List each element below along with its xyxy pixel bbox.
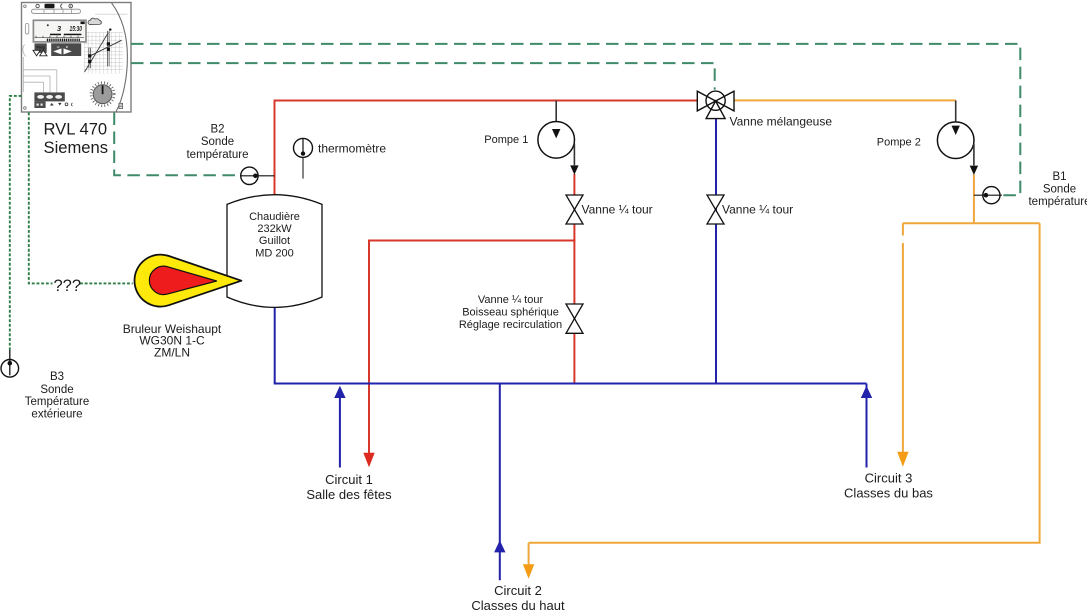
controller U1 RVL 470 Siemens [22, 3, 132, 113]
svg-text:Pompe 1: Pompe 1 [484, 134, 528, 146]
svg-text:232kW: 232kW [257, 223, 292, 235]
svg-text:Sonde: Sonde [40, 384, 73, 396]
rotary knob [91, 83, 114, 106]
wire green dotted to burner [29, 113, 133, 284]
svg-text:Siemens: Siemens [44, 138, 109, 157]
svg-text:Boisseau sphérique: Boisseau sphérique [462, 307, 559, 319]
svg-text:thermomètre: thermomètre [318, 141, 386, 155]
wire red supply header [274, 100, 699, 102]
thermometer [294, 138, 313, 178]
wire orange distribution header [903, 222, 1040, 224]
svg-text:Prog: Prog [37, 46, 45, 50]
svg-text:B1: B1 [1052, 171, 1066, 183]
wire orange circuit 3 supply [902, 223, 904, 452]
wire orange bottom run [529, 542, 1041, 544]
wire blue circuit 1 return [339, 398, 341, 468]
arrow blue circuit 2 [494, 540, 505, 552]
label burner Bruleur Weishaupt WG30N 1-C ZM/LN [123, 322, 222, 359]
arrow orange circuit 2 [523, 564, 534, 579]
wire blue boiler return drop [274, 307, 276, 384]
svg-text:Vanne ¼ tour: Vanne ¼ tour [478, 294, 544, 306]
wire green dashed to sensor B1 [131, 44, 1020, 195]
svg-text:Circuit 3: Circuit 3 [865, 471, 913, 486]
label B3 Sonde Température extérieure [25, 371, 90, 420]
wire green dashed to sensor B2 [114, 113, 240, 176]
arrow red circuit 1 [363, 453, 374, 467]
wire red circuit 1 supply [368, 240, 370, 454]
mixing valve V4 three-way [697, 91, 734, 119]
wire orange right riser [1039, 223, 1041, 543]
wire red recirculation horizontal [369, 240, 575, 242]
svg-text:Vanne ¼ tour: Vanne ¼ tour [582, 202, 653, 216]
label Circuit 1 Salle des fêtes [306, 472, 392, 502]
svg-text:Circuit 2: Circuit 2 [494, 583, 542, 598]
sensor B1 flow temperature [974, 187, 1002, 204]
svg-text:???: ??? [54, 277, 82, 295]
label Circuit 2 Classes du haut [471, 583, 565, 613]
valve V2 quarter-turn ball recirculation [566, 304, 583, 333]
Prog button panel [35, 43, 47, 52]
arrow blue circuit 1 [334, 386, 345, 398]
valve V1 quarter-turn (pump 1 branch) [566, 195, 583, 224]
svg-text:Température: Température [25, 396, 90, 408]
svg-text:Circuit 1: Circuit 1 [325, 472, 373, 487]
wire orange pump 2 drop [973, 175, 975, 224]
svg-text:Classes du bas: Classes du bas [844, 485, 933, 500]
svg-text:Réglage recirculation: Réglage recirculation [459, 319, 562, 331]
pump P1 connector and arrows [538, 101, 579, 175]
svg-text:Guillot: Guillot [259, 235, 290, 247]
cloud icon [88, 18, 101, 24]
svg-text:B2: B2 [210, 124, 224, 136]
wire orange circuit 2 supply [528, 543, 530, 565]
wire green dotted to sensor B3 [10, 96, 22, 350]
LCD display [33, 20, 86, 42]
svg-text:extérieure: extérieure [31, 409, 82, 421]
wire blue circuit 3 return [866, 384, 868, 468]
sensor B3 outdoor [1, 350, 19, 378]
label valve V2 three lines [459, 294, 562, 331]
setpoint grid chart [85, 33, 109, 72]
slider panel [34, 92, 64, 101]
svg-text:MD 200: MD 200 [255, 247, 294, 259]
wiring sketch lines [23, 57, 57, 92]
curved housing edge [112, 3, 128, 112]
valve V3 quarter-turn (mixing valve drop) [707, 195, 724, 224]
arrow button panel [51, 43, 81, 56]
svg-text:Vanne ¼ tour: Vanne ¼ tour [722, 202, 793, 216]
svg-text:Vanne mélangeuse: Vanne mélangeuse [730, 114, 833, 128]
wire blue return manifold [274, 383, 867, 385]
burner Q1 flame [134, 255, 241, 307]
wire red pump drop [573, 174, 575, 384]
svg-text:Salle des fêtes: Salle des fêtes [306, 487, 392, 502]
svg-text:Classes du haut: Classes du haut [471, 598, 565, 613]
label Circuit 3 Classes du bas [844, 471, 933, 501]
arrow blue circuit 3 [861, 386, 872, 398]
wire blue circuit 2 return [499, 384, 501, 581]
svg-text:ZM/LN: ZM/LN [154, 345, 190, 359]
svg-text:15:30: 15:30 [70, 24, 83, 33]
svg-text:température: température [186, 149, 248, 161]
boiler Chaudière 232kW Guillot MD 200 [227, 195, 322, 308]
svg-text:Pompe 2: Pompe 2 [877, 136, 921, 148]
label RVL 470 Siemens [44, 120, 109, 158]
sensor B2 boiler temperature [241, 167, 275, 184]
label B2 Sonde température [186, 124, 248, 161]
arrow orange circuit 3 [897, 452, 908, 467]
wire red boiler riser [274, 101, 276, 198]
pump P2 connector and arrows [937, 100, 978, 175]
svg-text:température: température [1028, 196, 1087, 208]
svg-text:Sonde: Sonde [201, 136, 234, 148]
svg-text:RVL 470: RVL 470 [44, 120, 108, 139]
svg-text:B3: B3 [50, 371, 64, 383]
label B1 Sonde température [1028, 171, 1087, 208]
wire orange supply to pump 2 [731, 99, 956, 101]
svg-text:Sonde: Sonde [1043, 183, 1076, 195]
svg-text:Chaudière: Chaudière [249, 211, 300, 223]
wire green dashed to mixing valve [131, 63, 715, 90]
wire blue mixing valve drop [715, 111, 717, 384]
